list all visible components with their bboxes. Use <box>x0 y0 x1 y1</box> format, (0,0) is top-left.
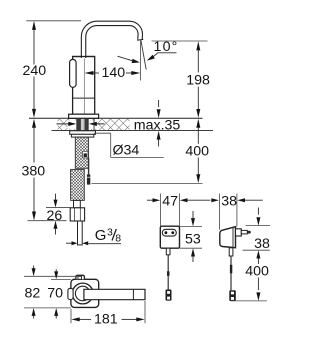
svg-text:8: 8 <box>115 232 121 244</box>
plug pins <box>236 229 242 236</box>
svg-text:400: 400 <box>185 143 209 159</box>
body circles <box>72 283 93 304</box>
outlet cut <box>137 38 143 41</box>
svg-text:240: 240 <box>23 63 47 79</box>
svg-text:47: 47 <box>162 194 178 210</box>
dimension 400 (cable) <box>196 119 200 184</box>
label G 3/8 <box>66 241 88 245</box>
svg-text:max.35: max.35 <box>134 118 181 134</box>
threaded shank <box>75 137 88 168</box>
braided hose <box>71 169 85 200</box>
plug cable <box>229 248 233 256</box>
base square <box>71 279 99 307</box>
hole edge arrows <box>67 120 76 128</box>
dimension 380 <box>32 119 36 221</box>
dimension 38 right <box>246 225 270 227</box>
spout top view <box>84 289 145 299</box>
washer <box>70 131 96 135</box>
hose fitting <box>74 200 81 207</box>
dimension 53 <box>180 225 202 227</box>
dimension 198 <box>196 41 200 118</box>
dimension 140 <box>85 71 141 75</box>
dimension 26 <box>54 194 58 235</box>
rear tab <box>76 275 85 279</box>
dimension 181 <box>70 309 72 323</box>
shank walls in deck <box>76 119 81 131</box>
svg-text:38: 38 <box>254 236 270 252</box>
body top edge over riser <box>73 56 95 58</box>
psu cable <box>166 248 170 255</box>
psu box <box>160 226 179 248</box>
dimension 38 top <box>218 194 220 230</box>
extension line spout top <box>26 20 81 22</box>
faucet cable <box>88 158 90 175</box>
psu connector <box>166 290 172 301</box>
base flange <box>69 114 99 118</box>
sensor window top view <box>68 288 73 299</box>
dimension 47 <box>160 194 162 227</box>
label diameter 34 <box>94 133 164 157</box>
svg-text:181: 181 <box>94 312 118 328</box>
inlet tube G3/8 <box>78 221 83 245</box>
dimension 240 <box>32 21 36 118</box>
dimension 400 right <box>256 258 260 301</box>
svg-text:380: 380 <box>22 164 46 180</box>
mounting nut <box>71 134 93 137</box>
dimension 70 <box>51 278 71 280</box>
svg-text:38: 38 <box>221 194 237 210</box>
svg-text:Ø34: Ø34 <box>113 142 140 158</box>
water jet line 10 deg <box>141 40 146 69</box>
svg-text:70: 70 <box>47 286 63 302</box>
faucet cable connector <box>87 174 90 184</box>
deck / countertop <box>29 117 203 119</box>
svg-text:400: 400 <box>245 263 269 279</box>
svg-text:53: 53 <box>185 231 201 247</box>
spout tube <box>84 23 141 58</box>
svg-text:3: 3 <box>107 226 113 238</box>
outlet centerline ext <box>140 40 142 81</box>
plug body <box>220 227 236 248</box>
faucet body <box>73 57 95 115</box>
svg-text:82: 82 <box>25 286 41 302</box>
svg-text:G: G <box>95 227 107 244</box>
svg-text:140: 140 <box>102 65 126 81</box>
hose hex nut <box>70 208 84 221</box>
extension line outlet level <box>152 40 208 42</box>
plug connector <box>229 290 236 301</box>
svg-text:198: 198 <box>186 72 210 88</box>
svg-text:26: 26 <box>47 208 63 224</box>
sensor window <box>70 59 77 87</box>
dimension 82 <box>24 275 77 277</box>
